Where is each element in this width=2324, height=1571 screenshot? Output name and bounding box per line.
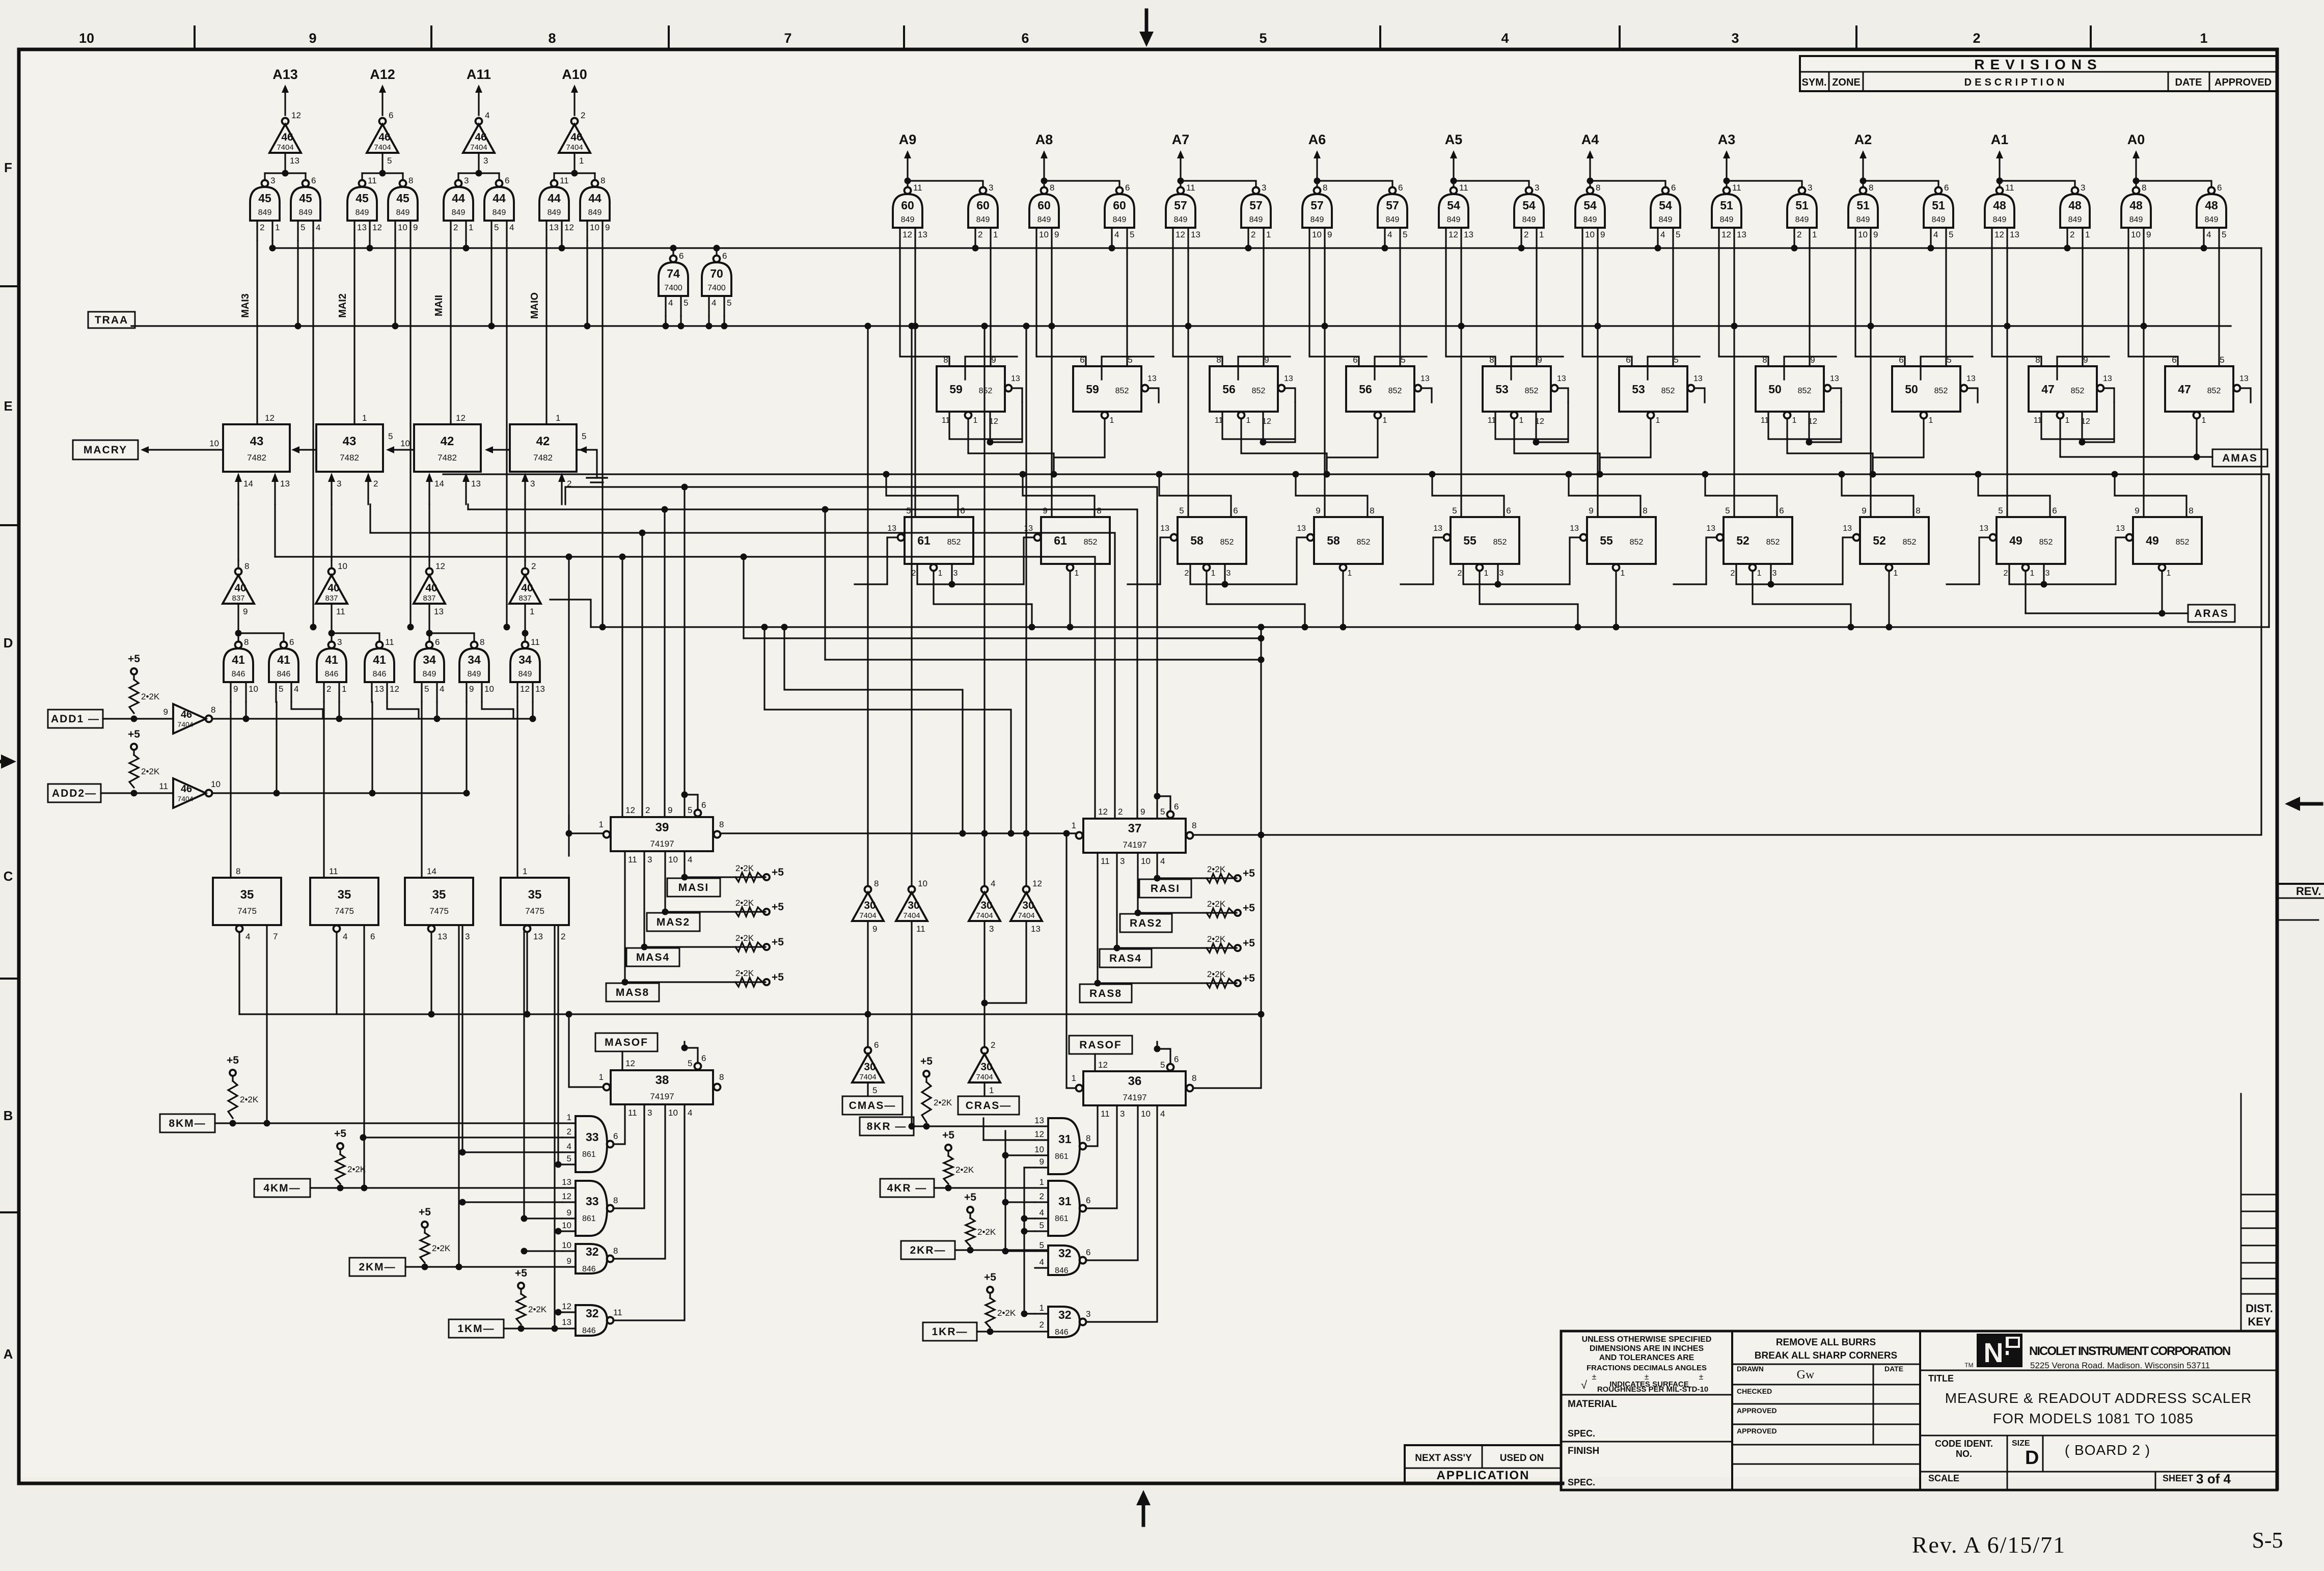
junction bbox=[434, 716, 441, 722]
nand gate 48 right (A0) 849 bbox=[2208, 187, 2215, 194]
inverter 40 837 bbox=[329, 568, 335, 575]
wire adder to inverter bbox=[237, 504, 239, 560]
wire pin5-6 loop bbox=[685, 1048, 698, 1062]
junction bbox=[1021, 1215, 1028, 1222]
flip-flop 58 852 (row2) bbox=[1178, 517, 1246, 564]
wire vertical bbox=[1023, 1168, 1025, 1202]
svg-text:1: 1 bbox=[1072, 821, 1076, 830]
svg-text:4: 4 bbox=[440, 684, 444, 694]
junction bbox=[1293, 471, 1299, 478]
wire input stub bbox=[1035, 1230, 1048, 1232]
svg-text:KEY: KEY bbox=[2248, 1315, 2271, 1328]
wire carry bbox=[394, 449, 414, 450]
svg-text:+5: +5 bbox=[964, 1191, 976, 1203]
wire top pin staircase bbox=[886, 476, 958, 517]
svg-text:A10: A10 bbox=[562, 67, 587, 82]
svg-text:30: 30 bbox=[864, 1061, 876, 1073]
svg-text:2: 2 bbox=[453, 223, 458, 232]
wire bottom pin 12 bbox=[1262, 412, 1264, 442]
svg-text:849: 849 bbox=[1037, 215, 1051, 224]
wire adder output down bbox=[564, 487, 566, 504]
svg-text:8: 8 bbox=[1596, 183, 1600, 193]
junction bbox=[1495, 581, 1501, 588]
svg-text:8: 8 bbox=[1192, 1073, 1196, 1083]
svg-text:4: 4 bbox=[343, 932, 347, 941]
bus line lower bbox=[591, 626, 2269, 628]
wire bottom pin 3 bbox=[1770, 564, 1771, 584]
pin 13 bubble bbox=[1171, 534, 1178, 541]
svg-text:34: 34 bbox=[518, 653, 532, 666]
svg-text:30: 30 bbox=[980, 1061, 992, 1073]
svg-text:4KR —: 4KR — bbox=[887, 1182, 927, 1194]
svg-text:9: 9 bbox=[2146, 230, 2151, 239]
svg-text:1: 1 bbox=[523, 866, 527, 876]
wire A13 inverter input bbox=[284, 154, 286, 173]
pin 8 bubble bbox=[1187, 1085, 1193, 1092]
junction bbox=[1021, 1311, 1028, 1317]
junction bbox=[663, 323, 669, 330]
wire pin13 bbox=[1297, 537, 1307, 584]
svg-text:46: 46 bbox=[570, 131, 582, 143]
wire A9 output arrow bbox=[907, 158, 908, 181]
wire counter 37 pin to RAS8 bbox=[1097, 853, 1098, 983]
nand gate 48 left (A0) 849 bbox=[2133, 187, 2140, 194]
junction bbox=[269, 245, 276, 252]
svg-text:CRAS—: CRAS— bbox=[966, 1100, 1012, 1112]
svg-text:6: 6 bbox=[289, 637, 294, 647]
svg-text:9: 9 bbox=[1327, 230, 1332, 239]
junction bbox=[641, 944, 648, 951]
nand gate 48 left (A1) 849 bbox=[1997, 187, 2003, 194]
wire input stub bbox=[1035, 1154, 1048, 1156]
junction bbox=[282, 170, 289, 177]
svg-text:1: 1 bbox=[1211, 569, 1216, 578]
wire counter 36 pin1 up bbox=[1067, 835, 1075, 1088]
wire 32c out to pin10 bbox=[1086, 1105, 1138, 1260]
wire to scaler bbox=[1536, 248, 1537, 366]
wire gate to scaler input bbox=[1719, 248, 1768, 366]
REV. tab right edge bbox=[2277, 883, 2324, 885]
svg-text:6: 6 bbox=[1086, 1248, 1090, 1257]
wire bbox=[683, 1042, 685, 1048]
wire staircase bbox=[1784, 357, 1836, 380]
junction bbox=[1839, 471, 1845, 478]
wire adder output down bbox=[467, 504, 469, 509]
svg-text:1: 1 bbox=[1792, 416, 1797, 425]
net label RASOF bbox=[1069, 1036, 1132, 1054]
svg-text:6: 6 bbox=[370, 932, 375, 941]
wire latch4 pin13 down bbox=[523, 929, 525, 1218]
svg-text:2•2K: 2•2K bbox=[1207, 899, 1226, 909]
wire 8KM line bbox=[215, 1122, 576, 1124]
nand gate 54 right (A4) 849 bbox=[1662, 187, 1669, 194]
pin 1 bubble bbox=[1340, 564, 1347, 571]
junction bbox=[1154, 875, 1161, 882]
svg-text:30: 30 bbox=[908, 900, 919, 911]
svg-text:11: 11 bbox=[1101, 856, 1110, 866]
net label 2KR— bbox=[901, 1241, 955, 1259]
nand gate 33 861 (2) bbox=[576, 1181, 607, 1236]
wire adder output down bbox=[274, 504, 276, 557]
svg-text:45: 45 bbox=[258, 192, 271, 205]
svg-text:2•2K: 2•2K bbox=[1207, 934, 1226, 944]
svg-text:46: 46 bbox=[281, 131, 293, 143]
svg-text:32: 32 bbox=[586, 1307, 599, 1320]
junction bbox=[1870, 471, 1876, 478]
svg-text:852: 852 bbox=[1766, 538, 1780, 547]
wire A10 gate input to bus bbox=[561, 240, 562, 248]
junction bbox=[1029, 624, 1035, 631]
wire to scaler bbox=[990, 248, 991, 366]
svg-text:34: 34 bbox=[468, 653, 481, 666]
svg-text:12: 12 bbox=[435, 561, 445, 571]
nand gate 44 left (A11) 849 bbox=[455, 180, 462, 187]
wire to bus bbox=[1930, 248, 1931, 248]
svg-text:11: 11 bbox=[336, 607, 345, 616]
svg-text:8: 8 bbox=[1192, 821, 1196, 830]
svg-text:10: 10 bbox=[484, 684, 494, 694]
junction bbox=[360, 1134, 367, 1141]
wire from top to inverter 30 bbox=[867, 326, 868, 886]
wire A6 output arrow bbox=[1316, 158, 1318, 181]
svg-text:2: 2 bbox=[567, 1127, 571, 1136]
wire bottom pin 1 bbox=[1342, 571, 1344, 627]
wire 47 pin1 to AMAS bbox=[2059, 419, 2061, 457]
svg-text:8: 8 bbox=[1643, 506, 1647, 516]
svg-text:1: 1 bbox=[1075, 569, 1079, 578]
svg-text:3: 3 bbox=[1226, 569, 1231, 578]
svg-text:APPROVED: APPROVED bbox=[1737, 1406, 1777, 1415]
svg-text:8: 8 bbox=[1869, 183, 1873, 193]
svg-text:+5: +5 bbox=[920, 1055, 933, 1067]
wire arrowhead into adder bbox=[584, 449, 587, 450]
svg-text:4: 4 bbox=[1160, 1109, 1165, 1119]
svg-text:RASI: RASI bbox=[1151, 883, 1180, 895]
wire A4 to second gate bbox=[1590, 181, 1665, 187]
wire bbox=[524, 560, 526, 568]
junction bbox=[488, 323, 495, 330]
pin 1 bubble bbox=[1511, 412, 1518, 419]
pin 1 bubble bbox=[1076, 1085, 1083, 1092]
svg-text:846: 846 bbox=[1055, 1266, 1069, 1275]
wire tap 32b in12 bbox=[558, 1311, 562, 1313]
wire bbox=[331, 560, 332, 568]
svg-text:7: 7 bbox=[784, 31, 791, 46]
pin 1 bubble bbox=[604, 1084, 610, 1091]
svg-text:852: 852 bbox=[947, 538, 961, 547]
wire to TRAA bus bbox=[723, 316, 725, 326]
junction bbox=[1135, 910, 1141, 916]
svg-text:52: 52 bbox=[1873, 534, 1886, 547]
svg-text:7: 7 bbox=[273, 932, 278, 941]
svg-text:2: 2 bbox=[373, 479, 378, 489]
svg-text:2•2K: 2•2K bbox=[141, 767, 160, 776]
wire ADD1 bbox=[103, 718, 173, 719]
junction bbox=[1002, 1199, 1009, 1206]
wire carry bbox=[299, 449, 316, 450]
svg-text:37: 37 bbox=[1128, 822, 1142, 835]
junction bbox=[379, 170, 386, 177]
wire gate input down bbox=[506, 240, 507, 627]
wire gate input down to row2 scaler bbox=[1597, 248, 1598, 517]
svg-text:7404: 7404 bbox=[177, 720, 193, 728]
junction bbox=[1258, 624, 1265, 631]
junction bbox=[1154, 793, 1161, 800]
svg-text:12: 12 bbox=[903, 230, 912, 239]
junction bbox=[2079, 439, 2086, 446]
svg-text:+5: +5 bbox=[772, 936, 784, 948]
wire bottom pin 1 bbox=[1327, 419, 1378, 474]
resistor 2.2K bbox=[129, 680, 139, 713]
wire jog bbox=[990, 402, 1022, 442]
wire vertical bbox=[1023, 1202, 1025, 1231]
svg-text:9: 9 bbox=[1043, 506, 1047, 516]
wire pin13 bbox=[1558, 388, 1568, 402]
svg-text:4KM—: 4KM— bbox=[263, 1182, 300, 1194]
wire bbox=[716, 248, 717, 256]
wire stub bbox=[568, 815, 569, 856]
svg-text:40: 40 bbox=[521, 582, 533, 594]
svg-text:44: 44 bbox=[588, 192, 601, 205]
junction bbox=[1063, 830, 1070, 837]
svg-text:1: 1 bbox=[1656, 416, 1660, 425]
resistor 2.2K bbox=[129, 755, 139, 788]
svg-text:1: 1 bbox=[556, 413, 560, 423]
wire bbox=[371, 702, 373, 793]
wire input stub bbox=[562, 1311, 576, 1313]
svg-text:8: 8 bbox=[244, 561, 249, 571]
svg-text:4: 4 bbox=[1501, 31, 1509, 46]
svg-text:ROUGHNESS PER MIL-STD-10: ROUGHNESS PER MIL-STD-10 bbox=[1597, 1385, 1708, 1394]
wire pin13 bbox=[1967, 388, 1978, 402]
junction bbox=[822, 506, 829, 513]
junction bbox=[522, 630, 529, 637]
wire staircase bbox=[965, 357, 1017, 380]
REVISIONS table bbox=[1800, 56, 2277, 91]
svg-text:846: 846 bbox=[1055, 1328, 1069, 1337]
svg-text:13: 13 bbox=[918, 230, 927, 239]
wire MACRY carry out bbox=[149, 449, 223, 450]
svg-text:9: 9 bbox=[309, 31, 316, 46]
svg-text:1: 1 bbox=[1621, 569, 1625, 578]
wire A8 output arrow bbox=[1043, 158, 1045, 181]
svg-text:2: 2 bbox=[1973, 31, 1980, 46]
svg-text:43: 43 bbox=[250, 435, 264, 448]
svg-text:+5: +5 bbox=[515, 1267, 527, 1279]
svg-text:SPEC.: SPEC. bbox=[1568, 1477, 1595, 1487]
junction bbox=[1806, 439, 1813, 446]
junction bbox=[131, 790, 138, 797]
svg-text:852: 852 bbox=[1798, 387, 1812, 395]
wire input stub bbox=[562, 1163, 576, 1165]
junction bbox=[566, 830, 572, 837]
svg-text:5: 5 bbox=[1160, 807, 1165, 817]
wire to scaler bbox=[1263, 248, 1264, 366]
svg-text:48: 48 bbox=[2068, 199, 2082, 212]
svg-text:A12: A12 bbox=[370, 67, 395, 82]
wire inverter input bbox=[331, 604, 332, 633]
svg-text:48: 48 bbox=[2205, 199, 2218, 212]
svg-text:1: 1 bbox=[989, 1086, 994, 1095]
svg-text:8: 8 bbox=[600, 176, 605, 185]
junction bbox=[552, 1325, 558, 1332]
svg-text:3: 3 bbox=[270, 176, 275, 185]
svg-text:TRAA: TRAA bbox=[95, 314, 128, 326]
wire pin13 bbox=[1285, 388, 1295, 402]
junction bbox=[1975, 471, 1982, 478]
svg-text:D: D bbox=[2025, 1447, 2039, 1469]
pin 13 bbox=[1005, 385, 1012, 392]
svg-text:2: 2 bbox=[1797, 230, 1801, 239]
wire top pin staircase bbox=[1978, 476, 2050, 517]
wire to bus bbox=[2066, 248, 2068, 248]
wire to pull-up bbox=[1157, 877, 1237, 879]
junction bbox=[1340, 624, 1347, 631]
nand gate 32 846 (3) bbox=[1048, 1245, 1080, 1275]
wire bottom pin 11 bbox=[1495, 412, 1568, 439]
junction bbox=[905, 178, 911, 184]
junction bbox=[1595, 323, 1601, 330]
wire bbox=[1316, 181, 1318, 187]
latch 35 7475 #4 bbox=[501, 878, 569, 925]
wire input stub bbox=[1035, 1167, 1048, 1168]
wire top pin staircase bbox=[1159, 476, 1231, 517]
svg-text:13: 13 bbox=[1433, 524, 1442, 533]
wire top pin staircase bbox=[1842, 476, 1913, 517]
wire input stub bbox=[562, 1230, 576, 1232]
svg-text:( BOARD 2 ): ( BOARD 2 ) bbox=[2065, 1442, 2150, 1458]
junction bbox=[721, 323, 728, 330]
svg-text:51: 51 bbox=[1932, 199, 1945, 212]
wire bbox=[532, 702, 533, 719]
wire bbox=[867, 1084, 868, 1096]
svg-text:44: 44 bbox=[493, 192, 506, 205]
svg-text:846: 846 bbox=[277, 670, 291, 679]
svg-text:E: E bbox=[4, 398, 12, 414]
svg-text:6: 6 bbox=[2217, 183, 2222, 193]
wire bottom pin 2 bbox=[1190, 564, 1297, 584]
svg-text:53: 53 bbox=[1495, 383, 1509, 396]
wire jog bbox=[1536, 402, 1568, 442]
svg-text:4: 4 bbox=[991, 879, 995, 888]
svg-text:12: 12 bbox=[390, 684, 399, 694]
svg-text:13: 13 bbox=[1147, 374, 1157, 383]
junction bbox=[1020, 471, 1026, 478]
svg-text:6: 6 bbox=[505, 176, 509, 185]
svg-text:54: 54 bbox=[1659, 199, 1672, 212]
wire latch1 to 8KM bbox=[266, 925, 267, 1123]
net label TRAA bbox=[88, 312, 135, 328]
junction bbox=[1997, 178, 2003, 184]
svg-text:+5: +5 bbox=[1243, 868, 1255, 879]
net label 1KR— bbox=[923, 1322, 977, 1341]
svg-text:+5: +5 bbox=[984, 1271, 996, 1283]
wire bottom pin 1 bbox=[1600, 419, 1651, 474]
junction bbox=[1458, 323, 1465, 330]
svg-text:10: 10 bbox=[668, 1108, 678, 1118]
svg-text:12: 12 bbox=[1098, 1060, 1108, 1070]
svg-text:FOR MODELS 1081 TO 1085: FOR MODELS 1081 TO 1085 bbox=[1993, 1411, 2194, 1426]
svg-text:13: 13 bbox=[1979, 524, 1988, 533]
net label CMAS— bbox=[842, 1096, 903, 1115]
pin 6 bubble bbox=[1167, 1064, 1174, 1071]
junction bbox=[2041, 581, 2047, 588]
svg-text:861: 861 bbox=[1055, 1152, 1069, 1161]
svg-text:54: 54 bbox=[1447, 199, 1460, 212]
svg-text:3: 3 bbox=[337, 637, 342, 647]
svg-text:2•2K: 2•2K bbox=[735, 863, 754, 873]
wire pin5-6 loop bbox=[1157, 1049, 1170, 1063]
wire bottom pin 11 bbox=[1768, 412, 1841, 439]
adder 43 7482 bbox=[316, 424, 383, 472]
wire 1KM line bbox=[504, 1328, 576, 1329]
wire bbox=[594, 173, 595, 180]
bus line mid bbox=[443, 473, 2269, 475]
wire bbox=[237, 633, 239, 642]
svg-text:5: 5 bbox=[1725, 506, 1730, 516]
junction bbox=[2201, 245, 2207, 252]
wire inverter input bbox=[524, 604, 526, 633]
sheet alignment arrow right bbox=[2300, 802, 2321, 806]
svg-text:8: 8 bbox=[548, 31, 556, 46]
svg-text:12: 12 bbox=[564, 223, 574, 232]
resistor 2.2K bbox=[516, 1294, 526, 1324]
svg-text:59: 59 bbox=[949, 383, 963, 396]
nand gate 41 846 bbox=[235, 642, 242, 648]
nand gate 57 left (A6) 849 bbox=[1314, 187, 1321, 194]
net label MASI bbox=[667, 878, 720, 897]
svg-text:SYM.: SYM. bbox=[1802, 77, 1827, 88]
svg-text:APPROVED: APPROVED bbox=[1737, 1427, 1777, 1435]
wire A5 output arrow bbox=[1453, 158, 1454, 181]
svg-text:7475: 7475 bbox=[237, 906, 257, 916]
svg-text:849: 849 bbox=[258, 208, 272, 217]
svg-text:AND TOLERANCES ARE: AND TOLERANCES ARE bbox=[1599, 1353, 1694, 1362]
wire counter 37 pin to RASI bbox=[1156, 853, 1158, 878]
svg-text:8: 8 bbox=[236, 866, 240, 876]
svg-text:1: 1 bbox=[1812, 230, 1817, 239]
junction bbox=[337, 1185, 344, 1191]
svg-text:13: 13 bbox=[1843, 524, 1852, 533]
wire gate to scaler input bbox=[1173, 248, 1222, 366]
svg-text:852: 852 bbox=[1252, 387, 1266, 395]
wire right loop bbox=[2268, 474, 2270, 627]
svg-text:1: 1 bbox=[2202, 416, 2206, 425]
svg-text:2: 2 bbox=[531, 561, 536, 571]
wire gate input to TRAA bus bbox=[490, 240, 492, 326]
wire input stub bbox=[562, 1151, 576, 1153]
svg-text:11: 11 bbox=[628, 1108, 637, 1118]
svg-text:6: 6 bbox=[1021, 31, 1029, 46]
wire to bus bbox=[1247, 248, 1249, 248]
wire to TRAA bus bbox=[665, 316, 666, 326]
net label 4KM— bbox=[254, 1179, 310, 1197]
net label 8KR — bbox=[860, 1117, 914, 1135]
svg-text:59: 59 bbox=[1086, 383, 1099, 396]
pin 8 bubble bbox=[714, 831, 721, 838]
wire 31a out to counter36 pin11 bbox=[1086, 1105, 1098, 1146]
svg-text:4: 4 bbox=[712, 298, 716, 308]
wire input stub bbox=[562, 1201, 576, 1203]
junction bbox=[1324, 471, 1330, 478]
wire 32a out to pin10 bbox=[614, 1104, 665, 1259]
svg-text:30: 30 bbox=[980, 900, 992, 911]
junction bbox=[1051, 471, 1057, 478]
svg-text:1: 1 bbox=[1383, 416, 1387, 425]
pin 13 bbox=[1961, 385, 1967, 392]
svg-text:5225 Verona Road. Madison. Wis: 5225 Verona Road. Madison. Wisconsin 537… bbox=[2030, 1361, 2210, 1370]
svg-text:4: 4 bbox=[2206, 230, 2211, 239]
